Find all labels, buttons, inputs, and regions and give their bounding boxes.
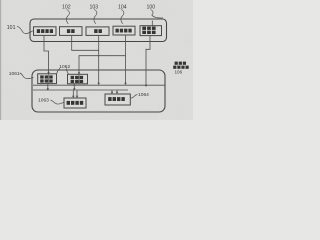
svg-text:104: 104: [118, 4, 127, 10]
svg-text:1064: 1064: [138, 92, 149, 98]
svg-text:100: 100: [147, 4, 156, 10]
svg-text:101: 101: [7, 25, 16, 31]
svg-text:1062: 1062: [59, 64, 70, 70]
svg-text:103: 103: [90, 4, 99, 10]
svg-text:106: 106: [175, 69, 183, 74]
svg-text:102: 102: [62, 4, 71, 10]
svg-text:1063: 1063: [38, 98, 49, 104]
svg-text:1061: 1061: [9, 71, 20, 77]
